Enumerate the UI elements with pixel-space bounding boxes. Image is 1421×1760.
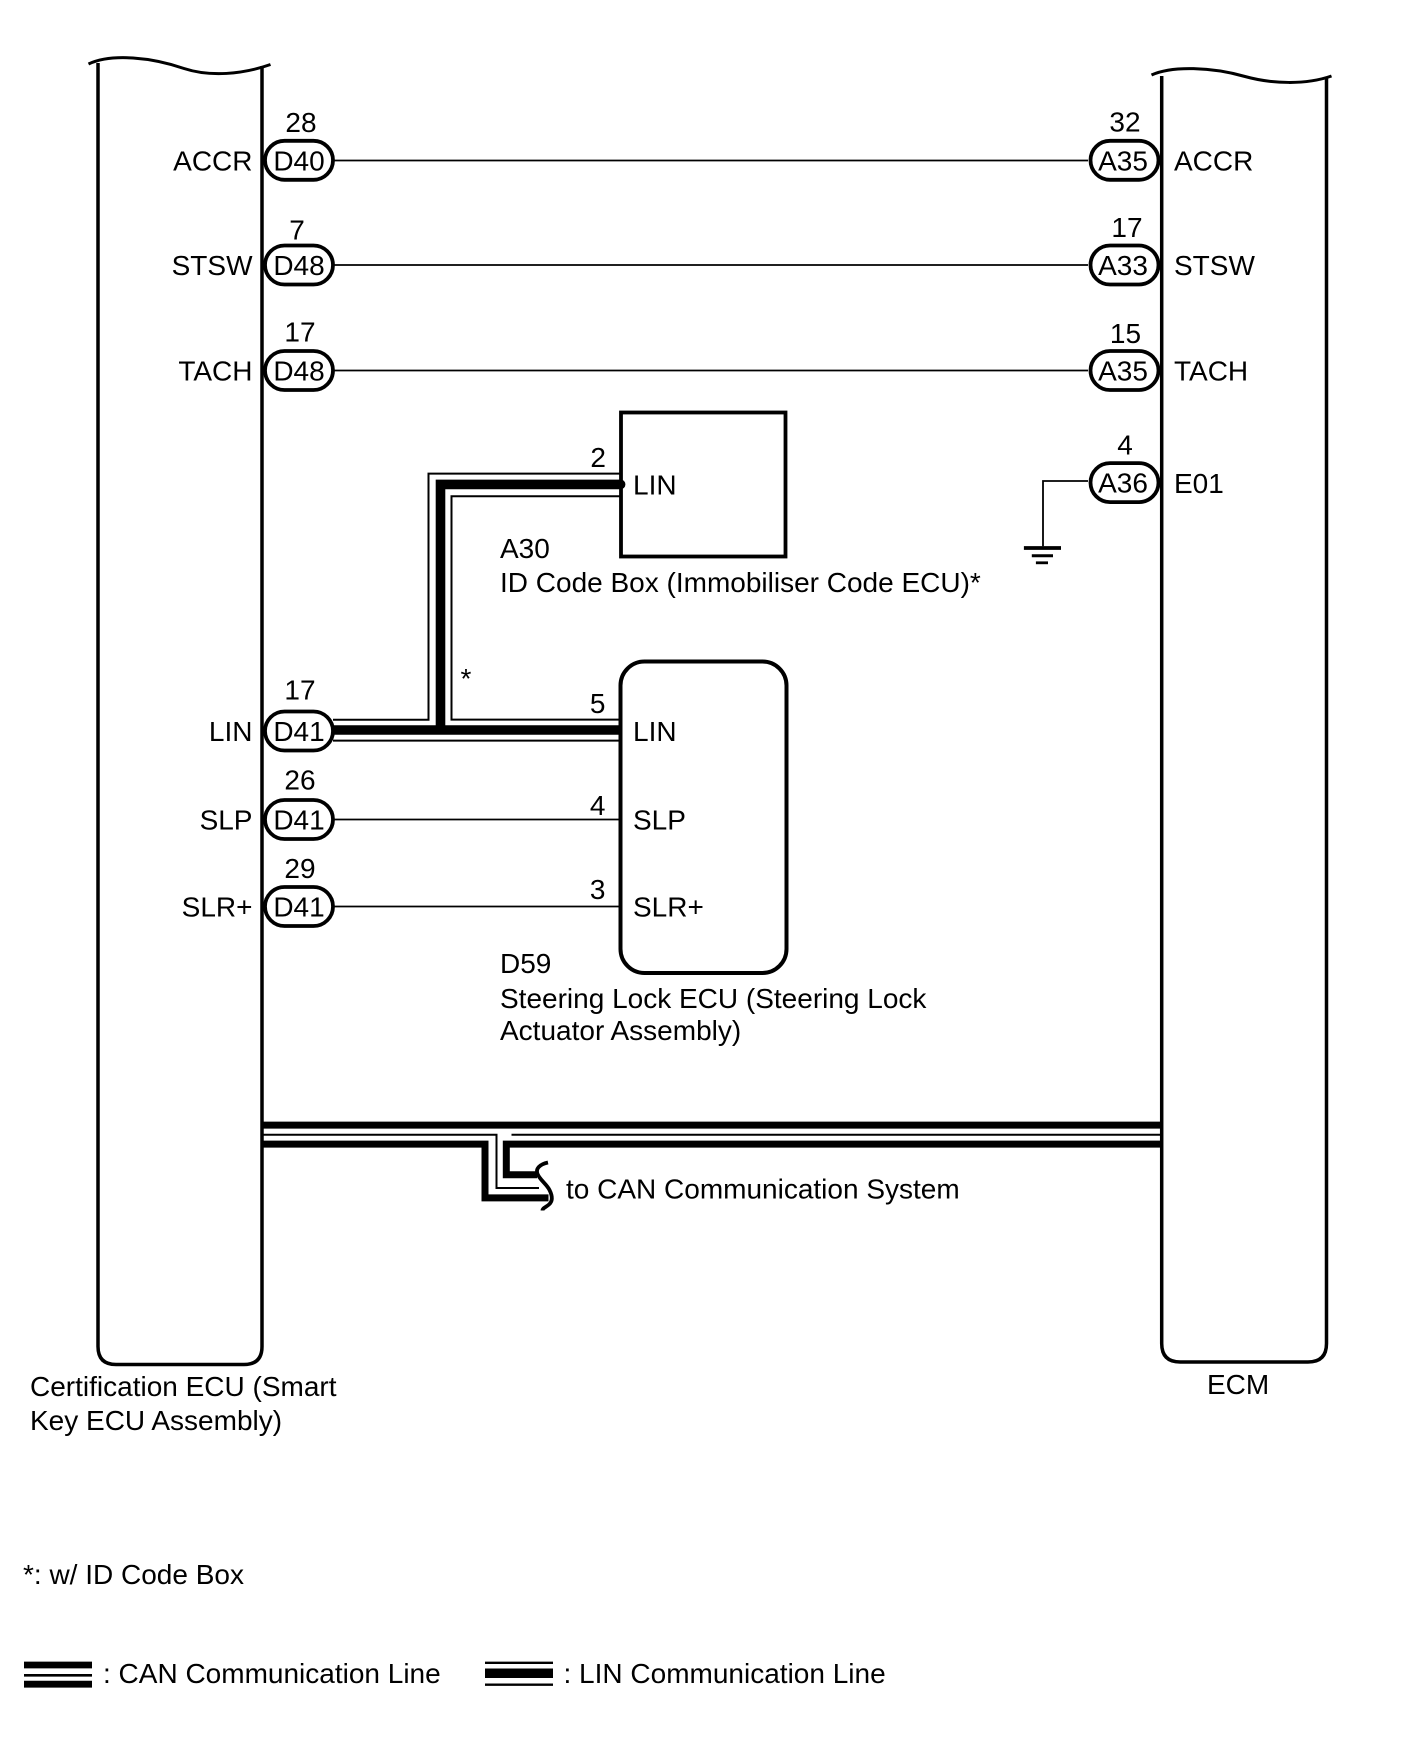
- steering lock ECU box D59: [621, 662, 787, 974]
- svg-text:LIN: LIN: [209, 716, 253, 747]
- svg-text:4: 4: [590, 790, 606, 821]
- svg-text:: LIN Communication Line: : LIN Communication Line: [564, 1658, 886, 1689]
- svg-text:Certification ECU (Smart: Certification ECU (Smart: [30, 1371, 337, 1402]
- svg-text:15: 15: [1110, 318, 1141, 349]
- svg-text:28: 28: [285, 107, 316, 138]
- svg-text:SLR+: SLR+: [182, 892, 253, 923]
- svg-text:SLR+: SLR+: [633, 892, 704, 923]
- svg-text:ECM: ECM: [1207, 1369, 1269, 1400]
- svg-text:29: 29: [284, 853, 315, 884]
- wire LIN thin outline inner: [452, 496, 622, 719]
- wire STSW: [334, 264, 1088, 266]
- svg-text:STSW: STSW: [172, 250, 253, 281]
- ECM box body: [1162, 76, 1327, 1362]
- Certification ECU box wavy top: [89, 58, 271, 74]
- svg-text:17: 17: [284, 317, 315, 348]
- ID code box A30: [621, 413, 786, 557]
- legend LIN line symbol: [485, 1663, 553, 1685]
- svg-text:E01: E01: [1174, 468, 1224, 499]
- svg-text:ID Code Box (Immobiliser Code: ID Code Box (Immobiliser Code ECU)*: [500, 567, 981, 598]
- svg-text:LIN: LIN: [633, 716, 677, 747]
- CAN bus lower thick line left + branch drop: [261, 1144, 549, 1198]
- connector D41 LIN: [265, 712, 333, 751]
- svg-text:: CAN Communication Line: : CAN Communication Line: [103, 1658, 441, 1689]
- svg-text:D41: D41: [273, 805, 324, 836]
- svg-text:D41: D41: [273, 716, 324, 747]
- connector D48 STSW: [265, 246, 333, 285]
- ECM box wavy top: [1152, 69, 1332, 83]
- svg-text:SLP: SLP: [633, 805, 686, 836]
- svg-text:A36: A36: [1098, 468, 1148, 499]
- svg-text:SLP: SLP: [200, 805, 253, 836]
- svg-text:TACH: TACH: [1174, 356, 1248, 387]
- svg-text:17: 17: [284, 675, 315, 706]
- svg-text:26: 26: [284, 765, 315, 796]
- svg-text:A30: A30: [500, 533, 550, 564]
- wire E01 ground lead: [1043, 481, 1088, 546]
- CAN bus upper thick line: [261, 1122, 1162, 1129]
- connector D41 SLR+: [265, 887, 333, 926]
- legend CAN line symbol: [24, 1665, 92, 1684]
- svg-text:ACCR: ACCR: [1174, 146, 1253, 177]
- ground: [1024, 548, 1061, 563]
- wire LIN thin outline outer: [333, 474, 621, 720]
- wire LIN thick branch to ID code box pin 2: [436, 484, 619, 734]
- wire SLR+: [334, 906, 621, 908]
- svg-text:4: 4: [1117, 430, 1133, 461]
- connector A33 STSW: [1091, 246, 1159, 285]
- Certification ECU box body: [98, 63, 262, 1365]
- svg-text:TACH: TACH: [178, 356, 252, 387]
- CAN bus middle thin line right: [512, 1134, 1163, 1136]
- connector A35 TACH: [1091, 351, 1159, 390]
- svg-text:STSW: STSW: [1174, 250, 1255, 281]
- CAN break squiggle: [537, 1163, 552, 1211]
- svg-text:Key ECU Assembly): Key ECU Assembly): [30, 1405, 282, 1436]
- svg-text:ACCR: ACCR: [173, 146, 252, 177]
- svg-text:5: 5: [590, 688, 606, 719]
- svg-text:D40: D40: [273, 146, 324, 177]
- svg-text:D48: D48: [273, 250, 324, 281]
- svg-text:*: w/ ID Code Box: *: w/ ID Code Box: [23, 1559, 244, 1590]
- svg-text:17: 17: [1111, 212, 1142, 243]
- svg-text:A35: A35: [1098, 356, 1148, 387]
- wire TACH: [334, 370, 1088, 372]
- svg-text:A35: A35: [1098, 146, 1148, 177]
- svg-text:D41: D41: [273, 892, 324, 923]
- svg-text:32: 32: [1109, 107, 1140, 138]
- svg-text:D48: D48: [273, 356, 324, 387]
- wire LIN thick main run D41 to D59: [333, 725, 621, 735]
- connector D41 SLP: [265, 800, 333, 839]
- svg-text:A33: A33: [1098, 250, 1148, 281]
- svg-text:Actuator Assembly): Actuator Assembly): [500, 1015, 741, 1046]
- connector D40: [265, 141, 333, 180]
- svg-text:7: 7: [289, 215, 305, 246]
- svg-text:3: 3: [590, 874, 606, 905]
- svg-text:D59: D59: [500, 948, 551, 979]
- svg-text:LIN: LIN: [633, 470, 677, 501]
- wire ACCR: [334, 160, 1088, 162]
- svg-text:*: *: [461, 663, 472, 694]
- connector A35 ACCR: [1091, 141, 1159, 180]
- CAN bus lower thick line right + branch drop: [506, 1144, 1162, 1175]
- CAN bus middle thin line left + branch: [261, 1135, 539, 1188]
- connector A36 E01: [1091, 463, 1159, 502]
- wire LIN thin outline bottom: [333, 740, 621, 742]
- svg-text:2: 2: [590, 442, 606, 473]
- wire SLP: [334, 819, 621, 821]
- svg-text:Steering Lock ECU (Steering Lo: Steering Lock ECU (Steering Lock: [500, 983, 927, 1014]
- connector D48 TACH: [265, 351, 333, 390]
- svg-text:to CAN Communication System: to CAN Communication System: [566, 1174, 960, 1205]
